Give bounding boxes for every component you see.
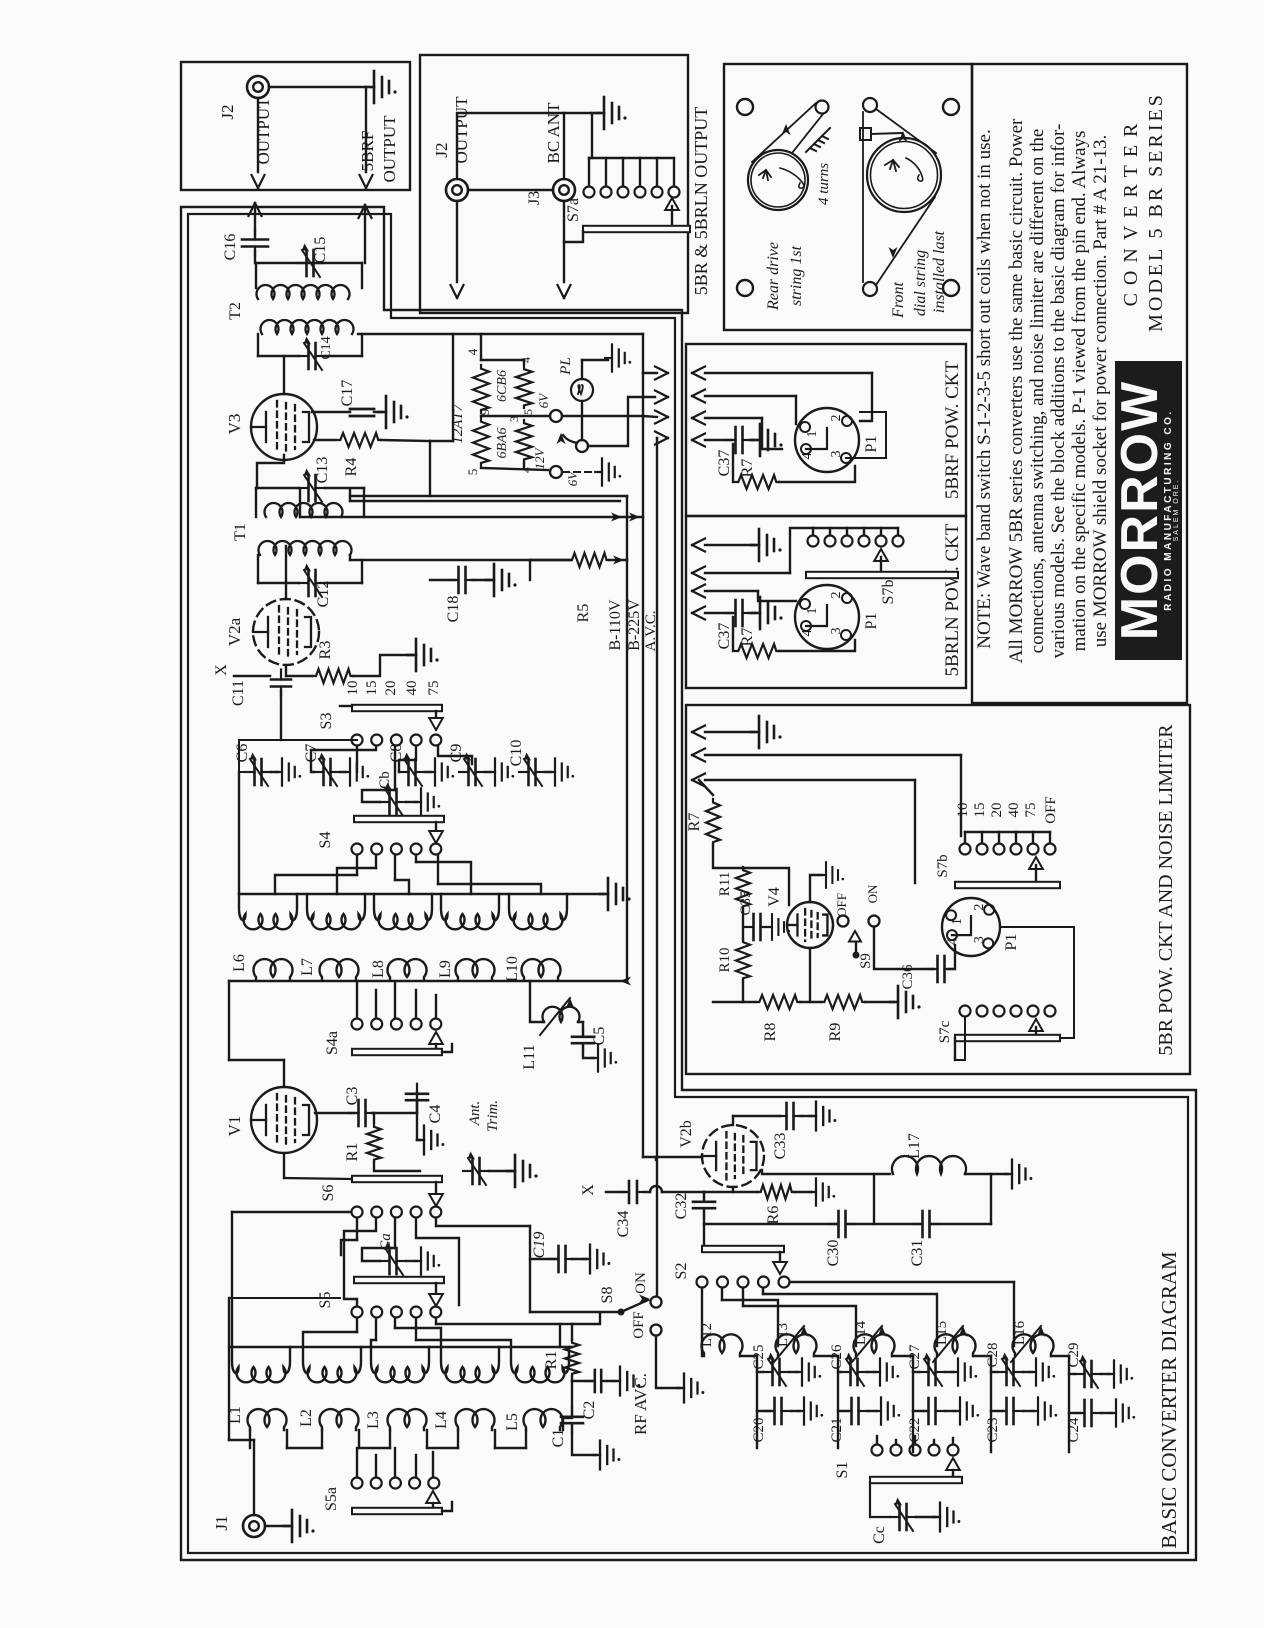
front belt [876,109,936,153]
capacitor C16 [242,230,268,257]
T1 secondary top rail [256,487,299,489]
tube V2a [253,599,319,665]
wire in3 to socket pin1 [758,591,796,601]
wire to socket pin2 [860,373,872,421]
svg-text:C37: C37 [716,623,733,650]
resistor R1 (AVC) [560,1323,572,1325]
svg-text:V2a: V2a [225,617,244,646]
trimmer C10 [519,753,545,787]
svg-text:C21: C21 [829,1417,845,1442]
arrow wiper S2 [779,1252,781,1260]
inductor L6 [254,959,293,980]
trimmer C28 [991,1371,997,1373]
wire bus to V2b grid [643,1156,702,1158]
trimmer C15 [297,244,323,278]
coil group b5 [511,1347,569,1382]
screw hole top-left [737,99,753,115]
rear dial drum [748,150,808,210]
ground (C7) [340,771,346,773]
ground (C24) [1101,1412,1112,1414]
trimmer C8 [399,753,425,787]
resistor R7 (5BR) [706,799,720,845]
trimmer C25 [757,1371,763,1373]
svg-text:P1: P1 [863,436,880,453]
wire socket pin3 loop [846,412,886,458]
bus wire pair from T-circuits [350,495,627,497]
svg-text:4: 4 [519,357,533,363]
svg-text:C36: C36 [900,964,916,990]
wire PL to lever [581,401,583,440]
svg-text:string 1st: string 1st [788,245,805,306]
svg-text:6BA6: 6BA6 [495,427,510,458]
coil group b4 [441,1347,499,1382]
front belt arrows [899,131,908,142]
svg-text:Front: Front [890,282,907,319]
T2 primary frame [258,355,299,357]
svg-text:3: 3 [507,416,521,422]
wire S3-5 down [438,746,472,764]
wire S7a bar to J3 branch [564,231,583,242]
svg-text:RF AVC.: RF AVC. [631,1373,650,1435]
resistor R4 [337,433,381,447]
svg-text:15: 15 [364,681,380,696]
trimmer Cb [380,783,406,817]
coil group b2 [303,1347,361,1382]
ground (R3) [408,639,439,671]
tube V2b [702,1125,764,1187]
variable inductor L11 [543,1007,580,1022]
arrow wiper S5a [426,1491,440,1503]
capacitor C18 [430,579,455,581]
wire X to C34 [606,1191,625,1193]
svg-text:C27: C27 [907,1344,923,1370]
svg-text:P1: P1 [1003,934,1020,951]
svg-text:4: 4 [465,348,480,355]
switch S7a terminal wire [589,157,674,159]
svg-text:4: 4 [800,630,815,637]
svg-text:4: 4 [800,453,815,460]
svg-text:OFF: OFF [631,1311,647,1339]
switch S5 wiper bar [354,1277,444,1283]
capacitor C2 [571,1376,573,1381]
wires S4 down to coils [356,855,358,875]
svg-text:C23: C23 [985,1417,1001,1442]
frame: 5BRF POW. CKT box [686,344,966,516]
screw hole bottom-left [737,280,753,296]
rear belt arrow [782,124,791,135]
ground (C25) [789,1371,798,1373]
svg-text:C37: C37 [716,450,733,477]
ground (C5) [583,1046,594,1058]
svg-text:C26: C26 [829,1344,845,1370]
svg-text:OFF: OFF [834,893,849,917]
wire 5BRF output [365,87,367,172]
frame: 5BRF OUTPUT box (top-left) [181,62,410,190]
svg-text:R3: R3 [317,641,334,660]
ground (5BR in1) [751,716,782,748]
terminal 6V [550,410,562,422]
svg-text:6V: 6V [536,392,551,409]
wire V2b top to C33 [732,1116,734,1125]
svg-text:L7: L7 [299,958,316,976]
wire C30 junction up [873,1174,875,1224]
svg-text:C1: C1 [550,1429,567,1448]
front shaft [860,128,871,140]
coil bank upper rail [239,893,604,895]
ground (C2) [605,1380,616,1382]
svg-text:OFF: OFF [1043,796,1059,824]
svg-text:CONVERTER: CONVERTER [1120,116,1142,307]
ground (C1) [572,1426,596,1455]
ground (S8 OFF) [656,1336,680,1388]
wires L to S5a [356,1448,358,1477]
switch S2 contacts [697,1277,708,1288]
capacitor C30 [829,1211,856,1237]
wire R7 to socket [779,466,855,482]
svg-text:5: 5 [521,409,535,415]
trimmer C27 [913,1371,919,1373]
wire C32 branch [703,1192,705,1199]
screw hole top-mid [943,99,959,115]
capacitor C37 (5BRLN) [726,600,753,626]
ground (PL) [605,344,631,371]
dashed wire 12V to ground [563,471,598,473]
ground (C19) [572,1258,586,1260]
wire R3 to ground [353,655,412,676]
capacitor C4 [416,1092,418,1113]
svg-text:All MORROW 5BR series converte: All MORROW 5BR series converters use the… [1006,118,1027,663]
svg-text:use MORROW shield socket for p: use MORROW shield socket for power conne… [1090,135,1111,648]
wire T2 left down [255,263,257,288]
coil group b3 [371,1347,429,1382]
vertical bus AVC [656,438,658,1296]
inductor L12 [702,1334,743,1356]
svg-text:20: 20 [989,803,1005,818]
transformer T2 secondary [257,285,350,299]
svg-text:C8: C8 [388,744,405,763]
switch S9 contact OFF [838,916,849,927]
svg-text:ON: ON [633,1272,649,1294]
connector J2 (5BR) [446,179,468,201]
svg-text:1: 1 [805,431,820,438]
pilot lamp PL [571,379,593,401]
wire J1 to ground [265,1525,288,1527]
svg-text:L8: L8 [370,960,387,978]
svg-text:C6: C6 [234,744,251,763]
rear tuning shaft 4 turns [806,128,830,152]
heater box right wire [642,334,644,373]
wire socket to S7c bar [1000,927,1074,1038]
ground (Cc) [916,1516,936,1518]
ground (C21) [867,1410,877,1412]
ground (C17) [374,411,382,413]
ground (5BRF C37) [749,439,756,441]
trimmer ladder rails [701,1288,703,1356]
capacitor C36 [928,956,955,982]
coil group a4 [441,894,499,929]
svg-text:15: 15 [972,803,988,818]
resistor R9 [821,995,865,1009]
terminal strip S7b contacts (5BRLN) [812,528,814,535]
svg-text:2: 2 [829,415,844,422]
trimmer Ca [380,1242,406,1276]
svg-text:Cb: Cb [377,771,393,789]
capacitor C33 [777,1103,804,1129]
ground (5BRLN in1) [751,529,782,561]
svg-text:R4: R4 [343,458,360,477]
svg-text:C7: C7 [303,744,320,763]
svg-text:S3: S3 [318,713,335,730]
wire in3 down to bar [914,780,916,883]
switch S7b contacts [960,844,971,855]
svg-text:C3: C3 [344,1087,361,1106]
svg-text:J1: J1 [212,1515,231,1530]
L bank lower rail [229,980,623,982]
switch S4 contacts [352,844,363,855]
bus wire AVC horizontal [300,516,643,518]
arrow in 3 (5BRF) [692,412,705,425]
wires S6 down [356,1218,358,1240]
svg-text:S5a: S5a [323,1487,340,1511]
svg-text:3: 3 [829,451,844,458]
frame: main box inner border [188,214,1188,1553]
wire C37 to R7 (5BRLN) [732,617,734,651]
svg-text:R6: R6 [765,1206,782,1225]
wire in2 down to S7b row [960,755,962,836]
svg-text:6CB6: 6CB6 [495,370,510,402]
svg-text:L10: L10 [504,956,521,982]
wires S5 to coils [356,1318,358,1332]
svg-text:1: 1 [950,918,965,925]
wire C16 to T2 [254,250,256,263]
svg-text:R1: R1 [344,1143,361,1162]
wire to socket pin1 [795,396,797,424]
T2 secondary top rail [256,262,362,264]
wire R5 left [530,559,569,561]
frame: dial string box [724,64,972,330]
connector J3 (BC ANT) [553,179,575,201]
svg-text:C13: C13 [314,457,331,484]
switch S7a wiper bar [583,226,690,232]
wire S7a riser [591,113,593,158]
svg-text:L11: L11 [521,1044,538,1069]
tube V3 [251,394,317,460]
svg-text:40: 40 [404,681,420,696]
capacitor C17 [350,408,374,411]
main box output arrow 1 [643,372,657,374]
rear drive pulley [816,101,829,114]
svg-text:R10: R10 [717,947,733,972]
svg-text:S4a: S4a [324,1031,341,1055]
arrow wiper S3 [435,711,437,716]
ground (box B) [596,97,627,129]
ground (C4) [417,1103,420,1140]
arrow in 4 (5BRLN) [692,607,705,620]
ground (C9) [485,771,491,773]
wire J2 down to output arrow [257,98,259,172]
svg-text:J2: J2 [432,142,451,157]
trimmer C6 [245,753,271,787]
svg-text:75: 75 [1023,803,1039,818]
wire S3-4 down [399,746,416,772]
arrow wiper S7c [1029,1019,1043,1031]
svg-text:S7b: S7b [880,580,897,605]
svg-text:R7: R7 [739,459,756,478]
inductor L5 [524,1409,563,1430]
frame: 5BRLN POW. CKT box [686,516,966,688]
svg-text:12V: 12V [532,446,547,469]
wire S8 feed [530,1311,618,1313]
inductor L16 (variable) [1013,1334,1054,1356]
wire C3 to C4 [372,1112,417,1114]
frame: 5BR POW. CKT AND NOISE LIMITER box [686,705,1190,1074]
svg-text:connections, antenna switching: connections, antenna switching, and nois… [1027,129,1048,654]
wire R7 to R11 [713,845,743,868]
svg-text:5BR & 5BRLN OUTPUT: 5BR & 5BRLN OUTPUT [691,107,711,296]
capacitor C24 [1069,1412,1081,1414]
arrow wiper S5 [435,1283,437,1292]
svg-text:C33: C33 [772,1133,789,1160]
wire J1 up [253,1440,255,1515]
capacitor C5 [578,1021,583,1023]
svg-text:S2: S2 [673,1263,690,1280]
switch S2 wiper bar [702,1246,784,1252]
svg-text:various models. See the block: various models. See the block additions … [1048,124,1069,659]
svg-text:2: 2 [829,592,844,599]
svg-text:S7a: S7a [565,198,582,222]
wire Ca left [362,1248,395,1261]
switch S3 contacts [352,735,363,746]
svg-text:J3: J3 [526,191,543,205]
wire R5 right [609,559,627,561]
svg-text:R5: R5 [575,604,592,623]
ground (C27) [945,1371,954,1373]
screw hole bottom-right [943,280,959,296]
svg-text:C25: C25 [751,1344,767,1369]
inductor L3 [388,1409,427,1430]
arrow output (J3) [558,285,571,298]
wire T2 primary to V3 plate [283,356,285,394]
frame: 5BR & 5BRLN OUTPUT box [420,55,688,313]
rear belt [752,103,816,162]
svg-text:S5: S5 [317,1292,334,1309]
svg-text:L15: L15 [934,1321,950,1345]
ground (C23) [1023,1410,1034,1412]
arrow in 1 (5BRF) [692,367,705,380]
terminal strip wire (5BRLN) [813,527,898,529]
svg-text:OUTPUT: OUTPUT [380,115,399,183]
wire in2 up to strip [790,528,813,573]
heater 12AT7 top lead [480,334,482,360]
inductor L15 (variable) [935,1334,976,1356]
wire R11 to R10 [742,909,744,940]
wire V2b cathode [732,1187,734,1192]
svg-text:L4: L4 [433,1411,450,1429]
inductor L14 (variable) [854,1334,895,1356]
svg-text:3: 3 [829,628,844,635]
heater bottom rail [481,468,548,470]
svg-text:MODEL 5 BR SERIES: MODEL 5 BR SERIES [1145,92,1167,332]
resistor R8 [756,995,800,1009]
inductor L13 (variable) [776,1334,817,1356]
ground (L17) [1005,1160,1033,1189]
arrow out (5BRF) [360,175,373,188]
svg-text:SALEM ORE.: SALEM ORE. [1173,479,1180,542]
arrow wiper S1 [946,1458,960,1470]
transformer T1 secondary [265,503,343,517]
wire T2 right down [361,263,363,288]
svg-text:C11: C11 [230,680,247,706]
switch S7c contacts [960,1006,971,1017]
wire C6 left [239,740,357,772]
transformer T2 primary [261,320,354,334]
wire T2 to heater rail [358,333,643,335]
svg-text:5BR POW. CKT AND NOISE LIMITER: 5BR POW. CKT AND NOISE LIMITER [1155,724,1177,1056]
capacitor C1 [571,1381,573,1414]
trimmer Cc [890,1498,916,1532]
wire J2 up and right [457,113,600,179]
svg-text:L1: L1 [227,1406,244,1424]
svg-text:C4: C4 [427,1105,444,1124]
wire C31 right up [932,1223,991,1225]
svg-text:Ant.: Ant. [467,1101,483,1127]
svg-text:R7: R7 [739,628,756,647]
wire J2 to J3 [468,189,553,191]
capacitor C19 [530,1258,556,1260]
switch S4 wiper bar [354,816,444,822]
svg-text:L14: L14 [853,1320,869,1345]
wire lever to arrow 2 [588,397,655,446]
arrow in 2 (5BRLN) [692,567,705,580]
inductor L10 [522,959,561,980]
arrow wiper S4 [435,822,437,829]
coil group a2 [307,894,365,929]
rail R8 R9 [713,1001,756,1003]
svg-text:B-225V: B-225V [626,599,643,651]
arrow in 3 (5BR) [692,774,705,787]
svg-text:Cc: Cc [871,1526,888,1544]
frame: right info box (NOTE / MORROW) [972,64,1187,703]
wire S3-2 down [311,746,376,772]
coil group b1 [232,1347,290,1382]
bus junction arrows [611,513,622,522]
ground (C33) [800,1115,812,1117]
wire C11 down [280,690,282,740]
trimmer C26 [838,1371,841,1373]
main box output arrow 2 [655,391,668,404]
svg-text:C12: C12 [315,581,332,608]
svg-text:V3: V3 [225,414,244,435]
svg-text:L5: L5 [504,1413,521,1431]
front pulley bottom [863,282,877,296]
svg-text:NOTE: Wave band switch S-1-2-3: NOTE: Wave band switch S-1-2-3-5 short o… [974,129,995,649]
wire R4 to heater box [381,440,430,441]
resistor R3 [313,669,353,683]
coil group a1 [239,894,297,929]
svg-text:J2: J2 [218,104,237,119]
wire L17 to ground [965,1173,1008,1175]
svg-text:L2: L2 [298,1409,315,1427]
arrow wiper S7b [1029,857,1043,869]
inductor L4 [455,1409,494,1430]
svg-text:C5: C5 [591,1027,608,1046]
switch S7a terminals [588,158,590,186]
svg-text:ON: ON [865,884,880,903]
wire J3 up [563,113,565,179]
L1-L5 lower rails [249,1430,251,1448]
svg-text:S1: S1 [834,1462,851,1479]
wire S7c left down [955,1017,965,1060]
